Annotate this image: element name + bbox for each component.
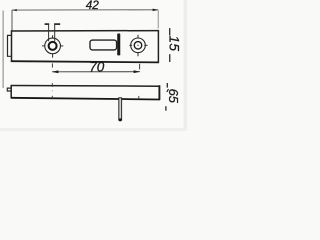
svg-text:42: 42 [86,0,100,12]
svg-text:70: 70 [89,59,105,74]
svg-text:15: 15 [167,35,183,51]
